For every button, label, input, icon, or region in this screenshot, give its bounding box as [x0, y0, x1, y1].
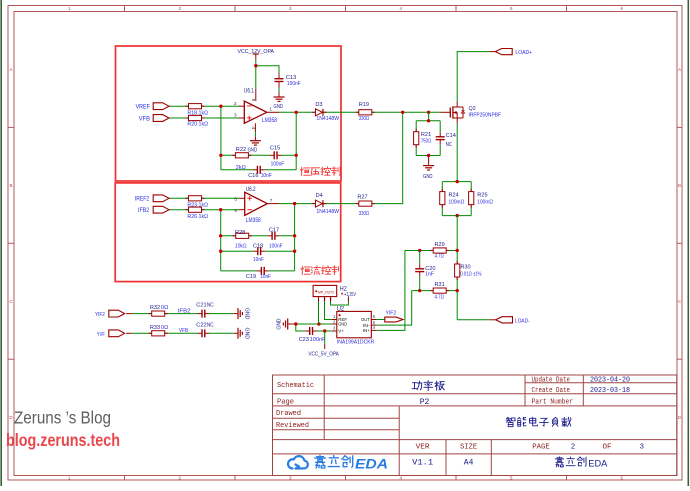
svg-text:NC: NC: [446, 142, 452, 148]
svg-text:10kΩ: 10kΩ: [235, 243, 247, 249]
svg-text:EDA: EDA: [588, 458, 608, 469]
svg-text:Q2: Q2: [469, 106, 476, 112]
svg-text:IN+: IN+: [363, 328, 370, 333]
svg-text:10nF: 10nF: [253, 257, 265, 263]
svg-text:R21: R21: [421, 132, 431, 138]
svg-text:OUT: OUT: [361, 317, 370, 322]
svg-text:2023-04-20: 2023-04-20: [590, 376, 630, 384]
svg-text:R33: R33: [150, 325, 160, 331]
svg-text:2: 2: [234, 101, 237, 107]
svg-text:MP_OUT2: MP_OUT2: [318, 290, 334, 294]
svg-text:IFB2: IFB2: [178, 309, 191, 315]
svg-text:OF: OF: [603, 444, 612, 452]
svg-text:D3: D3: [315, 102, 322, 108]
svg-text:C16: C16: [248, 173, 258, 179]
svg-text:Create Date: Create Date: [532, 387, 571, 395]
svg-text:EDA: EDA: [355, 456, 388, 471]
svg-text:IREF2: IREF2: [135, 197, 150, 203]
svg-text:LM358: LM358: [246, 218, 262, 224]
svg-text:R20 1kΩ: R20 1kΩ: [187, 122, 208, 128]
svg-text:Reviewed: Reviewed: [276, 422, 309, 430]
svg-text:2: 2: [571, 444, 576, 452]
svg-text:YIF2: YIF2: [95, 312, 105, 318]
svg-text:NC: NC: [207, 303, 214, 309]
svg-text:IFB2: IFB2: [138, 208, 150, 214]
svg-text:C21: C21: [196, 303, 206, 309]
svg-text:GND: GND: [248, 148, 258, 154]
svg-text:2023-03-18: 2023-03-18: [590, 387, 630, 395]
svg-text:C17: C17: [269, 228, 279, 234]
svg-text:R18 1kΩ: R18 1kΩ: [187, 110, 208, 116]
svg-text:INA199A1DCKR: INA199A1DCKR: [337, 339, 375, 345]
svg-text:A: A: [678, 67, 681, 72]
svg-text:100mΩ: 100mΩ: [477, 199, 493, 205]
svg-text:C19: C19: [246, 274, 256, 280]
svg-text:VCC_5V_OPA: VCC_5V_OPA: [308, 352, 339, 358]
svg-text:U6.2: U6.2: [246, 187, 256, 193]
svg-text:GND: GND: [274, 104, 284, 110]
svg-text:R23 1kΩ: R23 1kΩ: [187, 203, 208, 209]
svg-text:VCC_12V_OPA: VCC_12V_OPA: [238, 49, 275, 55]
svg-text:R30: R30: [460, 265, 470, 271]
svg-text:blog.zeruns.tech: blog.zeruns.tech: [6, 430, 120, 450]
svg-text:0.01Ω ±1%: 0.01Ω ±1%: [460, 272, 481, 278]
svg-text:PAGE: PAGE: [532, 444, 550, 452]
svg-text:3: 3: [639, 444, 644, 452]
svg-text:R32: R32: [150, 305, 160, 311]
svg-text:8: 8: [250, 99, 256, 102]
svg-text:V1.1: V1.1: [412, 458, 433, 467]
svg-text:1: 1: [269, 107, 272, 113]
svg-text:B: B: [9, 183, 12, 188]
svg-text:750Ω: 750Ω: [421, 139, 432, 145]
svg-text:5: 5: [234, 196, 237, 202]
svg-text:A: A: [9, 67, 12, 72]
svg-text:0Ω: 0Ω: [161, 325, 168, 331]
svg-text:YVF: YVF: [97, 332, 105, 338]
svg-text:R26 1kΩ: R26 1kΩ: [187, 214, 208, 220]
svg-text:U6.1: U6.1: [244, 89, 254, 95]
svg-text:0Ω: 0Ω: [161, 305, 168, 311]
svg-text:7: 7: [270, 198, 273, 204]
svg-text:1nF: 1nF: [425, 272, 434, 278]
svg-text:10nF: 10nF: [260, 274, 272, 280]
svg-text:100nF: 100nF: [271, 161, 285, 167]
svg-text:Update Date: Update Date: [532, 376, 571, 384]
svg-text:VFB: VFB: [179, 328, 188, 334]
svg-text:IRFP250NPBF: IRFP250NPBF: [469, 112, 502, 118]
svg-text:IN-: IN-: [363, 323, 371, 328]
svg-text:LOAD+: LOAD+: [515, 50, 532, 56]
svg-text:VFB: VFB: [139, 116, 150, 122]
svg-text:3: 3: [234, 113, 237, 119]
svg-text:V+: V+: [338, 328, 344, 333]
svg-text:R28: R28: [235, 230, 245, 236]
svg-text:4.7Ω: 4.7Ω: [435, 294, 445, 300]
svg-text:1N4148W: 1N4148W: [316, 116, 339, 122]
svg-text:SIZE: SIZE: [460, 444, 477, 452]
svg-text:Page: Page: [277, 399, 294, 407]
svg-text:C15: C15: [270, 145, 280, 151]
svg-text:1N4148W: 1N4148W: [316, 209, 339, 215]
svg-text:C14: C14: [446, 133, 456, 139]
svg-text:6: 6: [234, 208, 237, 214]
svg-text:P2: P2: [420, 398, 430, 407]
svg-text:LM358: LM358: [262, 118, 278, 124]
svg-text:330Ω: 330Ω: [359, 116, 370, 122]
svg-text:R29: R29: [435, 242, 445, 248]
svg-text:VER: VER: [416, 444, 431, 452]
svg-text:GND: GND: [276, 318, 282, 330]
svg-text:R27: R27: [357, 195, 367, 201]
svg-text:GND: GND: [244, 308, 250, 320]
svg-text:U2: U2: [337, 306, 345, 312]
svg-text:LOAD-: LOAD-: [515, 318, 530, 324]
svg-text:NC: NC: [207, 322, 214, 328]
svg-text:C22: C22: [196, 322, 206, 328]
svg-text:R19: R19: [359, 102, 369, 108]
svg-text:100nF: 100nF: [269, 243, 283, 249]
svg-text:2kΩ: 2kΩ: [236, 165, 246, 171]
svg-text:A4: A4: [464, 458, 474, 467]
svg-text:4.7Ω: 4.7Ω: [435, 254, 445, 260]
svg-text:R24: R24: [449, 192, 459, 198]
svg-text:10nF: 10nF: [261, 173, 273, 179]
svg-text:C18: C18: [253, 243, 263, 249]
svg-text:C23: C23: [299, 337, 309, 343]
svg-text:GND: GND: [244, 328, 250, 340]
svg-text:+1.25V: +1.25V: [344, 292, 356, 298]
svg-text:R31: R31: [435, 282, 445, 288]
svg-text:4: 4: [250, 127, 256, 130]
svg-text:330Ω: 330Ω: [359, 211, 370, 217]
svg-text:100nF: 100nF: [287, 81, 301, 87]
svg-text:Zeruns ’s Blog: Zeruns ’s Blog: [14, 408, 111, 428]
svg-text:Drawed: Drawed: [276, 410, 301, 418]
svg-text:R25: R25: [477, 192, 487, 198]
svg-text:Schematic: Schematic: [277, 382, 314, 390]
svg-text:B: B: [678, 183, 681, 188]
svg-text:Part Number: Part Number: [532, 399, 574, 407]
svg-text:R22: R22: [236, 147, 246, 153]
svg-text:D4: D4: [316, 193, 323, 199]
svg-text:VREF: VREF: [136, 105, 151, 111]
svg-text:100mΩ: 100mΩ: [449, 199, 465, 205]
svg-text:GND: GND: [423, 174, 433, 180]
svg-text:YIF2: YIF2: [386, 311, 397, 317]
svg-text:GND: GND: [338, 322, 347, 327]
svg-text:100nF: 100nF: [310, 337, 327, 343]
